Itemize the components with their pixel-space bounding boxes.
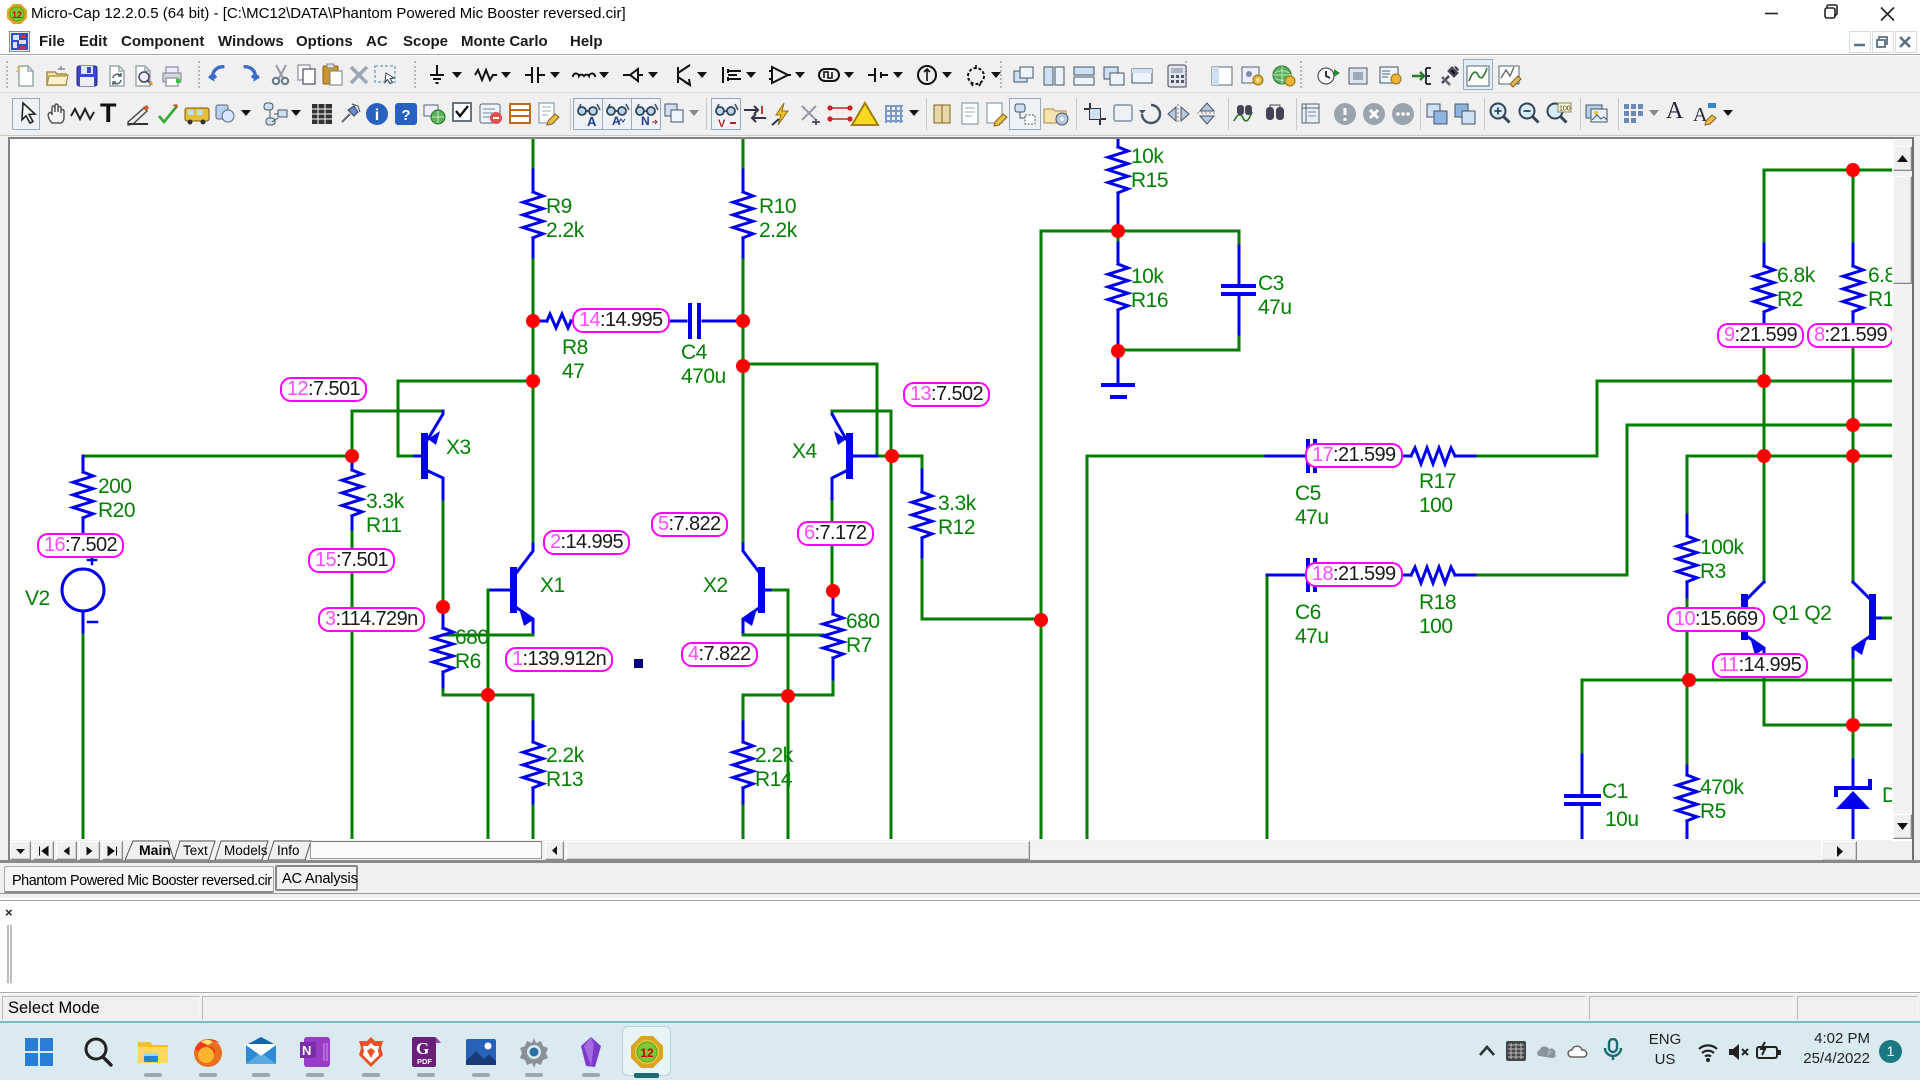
toolbar row 2 xyxy=(0,93,1920,136)
ground xyxy=(1117,351,1120,383)
resistor R20 200 xyxy=(82,456,85,472)
schematic window frame xyxy=(0,136,1920,863)
node 16 bubble xyxy=(37,533,124,558)
wire rail y425 xyxy=(1627,424,1891,427)
wire R14 bottom xyxy=(742,806,745,839)
wire top feed R10 xyxy=(742,137,745,170)
vertical scrollbar xyxy=(1893,140,1912,839)
wire node to R12 xyxy=(892,456,922,470)
wire R18 out to rail xyxy=(1478,425,1627,575)
wire down to X2 collector xyxy=(742,366,745,544)
wire X3 emitter rail xyxy=(352,410,443,413)
wire down to X3 base xyxy=(398,381,415,456)
node dot R12 bus xyxy=(1034,613,1048,627)
label R15 xyxy=(1131,145,1168,193)
node dot C4 / R10 xyxy=(736,314,750,328)
node dot R7 top / X4 collector xyxy=(826,584,840,598)
svg-text:PDF: PDF xyxy=(417,1057,432,1066)
wire C5 input column xyxy=(1086,456,1089,839)
wire bus rail y231 xyxy=(1041,230,1239,233)
wire emitter rail to edge xyxy=(1853,724,1891,727)
node 12 bubble xyxy=(280,377,367,402)
node 17 bubble xyxy=(1305,443,1403,468)
label R16 xyxy=(1131,265,1168,313)
wire C6 input column xyxy=(1266,575,1269,839)
wire rail y456 xyxy=(1687,455,1891,458)
wire R7 bottom rail xyxy=(743,694,833,697)
svg-text:100: 100 xyxy=(1559,106,1571,113)
node dot R16 bottom xyxy=(1111,344,1125,358)
wire Q2 emitter to diode xyxy=(1852,660,1855,760)
capacitor C1 10u xyxy=(1581,680,1584,755)
label R2 xyxy=(1777,264,1815,312)
wire down to X1 collector xyxy=(532,381,535,544)
wire long bus left column xyxy=(1040,231,1043,619)
capacitor C5 47u xyxy=(1266,455,1305,458)
resistor R14 2.2k xyxy=(742,722,745,742)
node 6 bubble xyxy=(797,521,874,546)
label R5 xyxy=(1700,776,1744,824)
transistor X2 xyxy=(743,544,759,572)
svg-text:12: 12 xyxy=(12,10,22,20)
label R13 xyxy=(546,744,584,792)
resistor R11 3.3k xyxy=(351,463,354,470)
node 1 bubble xyxy=(505,647,613,672)
svg-text:Text: Text xyxy=(183,843,208,858)
wire R1 bottom to rails xyxy=(1852,348,1855,456)
svg-text:i: i xyxy=(375,107,379,124)
node 11 bubble xyxy=(1712,653,1808,678)
node dot rail170 xyxy=(1846,163,1860,177)
resistor R9 2.2k xyxy=(532,170,535,192)
node dot rail456/Q1col xyxy=(1757,449,1771,463)
label Q1 Q2 xyxy=(1772,602,1831,626)
wire rail y381 xyxy=(1597,380,1891,383)
wire X3 collector down to node3 xyxy=(442,502,445,600)
capacitor C4 470u xyxy=(670,320,686,323)
wire X2 emitter to R7 xyxy=(743,634,823,637)
label R12 xyxy=(938,492,976,540)
label R3 xyxy=(1700,536,1744,584)
title bar xyxy=(0,0,1920,28)
svg-text:Info: Info xyxy=(277,843,300,858)
label R17 xyxy=(1419,470,1456,518)
wire X1 emitter to R6 xyxy=(443,634,533,637)
svg-text:N: N xyxy=(302,1043,311,1058)
wire R12 bottom to bus xyxy=(922,560,1041,619)
wire R11 bottom down xyxy=(351,532,354,839)
resistor R1 6.8k xyxy=(1852,170,1855,244)
wire top feed R9 xyxy=(532,137,535,170)
node 5 bubble xyxy=(651,512,728,537)
wire R17 out to rail xyxy=(1478,381,1597,456)
wire rail y680 xyxy=(1582,679,1892,682)
page tab + hscroll row xyxy=(10,840,1892,860)
node 2 bubble xyxy=(543,530,630,555)
label C3 xyxy=(1258,272,1292,320)
node dot rail381/R2 xyxy=(1757,374,1771,388)
sine source V2 xyxy=(62,569,104,611)
wire R6 bottom rail xyxy=(443,690,533,695)
label X1 xyxy=(540,574,565,598)
svg-text:N: N xyxy=(641,114,650,127)
wire R2 bottom to rail xyxy=(1763,348,1766,456)
wire X1 base column down xyxy=(487,590,490,839)
status bar xyxy=(0,994,1920,1021)
wire node to X4 base xyxy=(743,364,886,456)
wire X2 base to column xyxy=(773,589,788,592)
label R11 xyxy=(366,490,404,538)
node 13 bubble xyxy=(903,382,990,407)
probe marker square xyxy=(634,659,643,668)
label V2 xyxy=(25,587,50,611)
node dot X4 emitter / R12 xyxy=(885,449,899,463)
wire V2 minus down xyxy=(82,635,85,839)
transistor X3 xyxy=(415,455,422,458)
transistor X1 xyxy=(517,544,533,572)
wire R20 top to node xyxy=(83,455,352,458)
wire rail to R13 xyxy=(532,695,535,722)
label R8 xyxy=(562,336,588,384)
resistor R17 100 xyxy=(1411,448,1455,464)
label R20 xyxy=(98,475,135,523)
label X3 xyxy=(446,436,471,460)
label R9 xyxy=(546,195,584,243)
node dot col X3 feed xyxy=(526,374,540,388)
node dot rail456/Q2col xyxy=(1846,449,1860,463)
node 3 bubble xyxy=(318,607,425,632)
node 4 bubble xyxy=(681,642,758,667)
node dot R20/R11 junction xyxy=(345,449,359,463)
wire X2 base column down xyxy=(787,590,790,839)
resistor R15 10k xyxy=(1108,147,1128,193)
label C1 xyxy=(1602,780,1628,804)
label R7 xyxy=(846,610,880,658)
svg-text:Main: Main xyxy=(139,842,171,858)
resistor R16 10k xyxy=(1117,231,1120,243)
svg-text:Models: Models xyxy=(224,843,268,858)
node dot Q1/Q2 emitters xyxy=(1846,718,1860,732)
node 15 bubble xyxy=(308,548,395,573)
node dot X4 base feed xyxy=(736,359,750,373)
svg-text:?: ? xyxy=(401,107,410,124)
node dot R7 rail / X2 base column xyxy=(781,689,795,703)
label R14 xyxy=(755,744,793,792)
node 9 bubble xyxy=(1717,323,1804,348)
label R10 xyxy=(759,195,797,243)
resistor R12 3.3k xyxy=(921,470,924,492)
wire R13 bottom xyxy=(532,806,535,839)
node dot R3 rail680 xyxy=(1682,673,1696,687)
wire node14 to node12 xyxy=(532,321,535,381)
node dot R15/R16 xyxy=(1111,224,1125,238)
wire R10 to node xyxy=(742,260,745,321)
wire R3 bottom / Q1 base node xyxy=(1686,600,1689,673)
file tabs row xyxy=(0,863,1920,898)
wire R9 to node14 xyxy=(532,260,535,321)
resistor R13 2.2k xyxy=(532,722,535,742)
wire node12 to R9 column xyxy=(398,380,533,383)
node dot rail425/R1col xyxy=(1846,418,1860,432)
svg-text:A: A xyxy=(587,114,597,127)
resistor R3 100k xyxy=(1686,456,1689,515)
node 8 bubble xyxy=(1807,323,1894,348)
wire node to node13 xyxy=(742,321,745,366)
node 10 bubble xyxy=(1667,607,1765,632)
wire R15 top feed xyxy=(1117,137,1120,147)
label C1 value xyxy=(1605,808,1639,832)
label C5 xyxy=(1295,482,1329,530)
taskbar xyxy=(0,1021,1920,1080)
svg-text:V: V xyxy=(718,118,726,127)
node 14 bubble xyxy=(572,308,670,333)
wire C5 row input xyxy=(1087,455,1266,458)
resistor R2 6.8k xyxy=(1763,170,1766,244)
resistor R10 2.2k xyxy=(742,170,745,192)
wire rail to R14 xyxy=(742,695,745,722)
capacitor C6 47u xyxy=(1267,574,1305,577)
wire Q1 emitter down and right xyxy=(1764,660,1853,725)
menu bar xyxy=(0,28,1920,55)
node dot R6 rail / base column xyxy=(481,688,495,702)
wire X4 emitter column down xyxy=(890,456,893,839)
label X2 xyxy=(703,574,728,598)
capacitor C3 47u xyxy=(1238,231,1241,246)
label X4 xyxy=(792,440,817,464)
svg-text:12: 12 xyxy=(640,1046,654,1060)
label C6 xyxy=(1295,601,1329,649)
transistor Q2 xyxy=(1852,456,1855,582)
node dot X3-collector / R6 xyxy=(436,600,450,614)
wire X4 collector to R7 xyxy=(831,502,834,591)
message panel xyxy=(0,900,1920,993)
node 18 bubble xyxy=(1305,562,1403,587)
toolbar row 1 xyxy=(0,56,1920,93)
label C4 xyxy=(681,341,726,389)
wire X4 emitter loop xyxy=(832,411,891,449)
resistor R7 680 xyxy=(832,597,835,614)
label D1 xyxy=(1882,784,1908,808)
label R6 xyxy=(455,626,489,674)
transistor X4 xyxy=(853,455,877,458)
node dot R9/R8 xyxy=(526,314,540,328)
wire rail y170 xyxy=(1764,169,1891,172)
zener diode D1 xyxy=(1852,760,1855,786)
resistor R8 47 xyxy=(533,320,547,323)
resistor R18 100 xyxy=(1411,567,1455,583)
label R1 xyxy=(1868,264,1906,312)
svg-text:G: G xyxy=(416,1039,429,1058)
transistor Q1 xyxy=(1763,456,1766,582)
resistor R6 680 xyxy=(442,613,445,628)
resistor R5 470k xyxy=(1686,680,1689,766)
label R18 xyxy=(1419,591,1456,639)
wire node up to X3 emitter rail xyxy=(351,411,354,449)
